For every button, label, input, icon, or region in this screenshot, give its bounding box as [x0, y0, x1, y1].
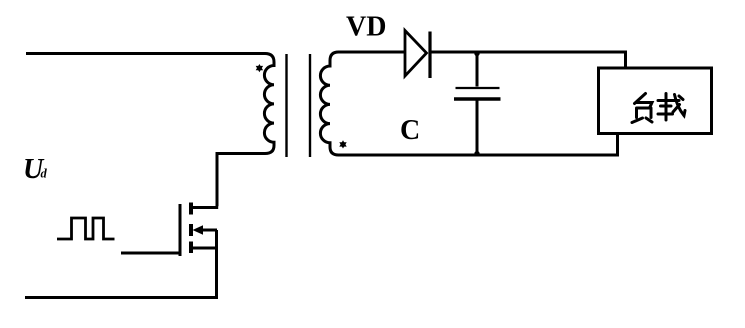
svg-text:VD: VD — [346, 12, 386, 43]
svg-text:d: d — [41, 167, 48, 181]
svg-text:C: C — [400, 115, 420, 146]
